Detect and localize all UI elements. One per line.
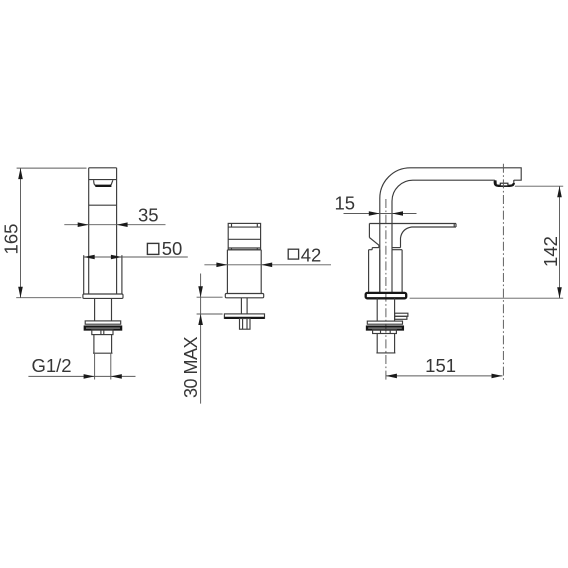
riser tube lines through body <box>380 250 392 293</box>
aerator at spout tip <box>495 180 514 186</box>
backnut <box>92 330 113 335</box>
label square 50 <box>147 238 182 259</box>
washer 1 <box>367 321 402 324</box>
shank <box>377 298 394 321</box>
extension lines for G1/2 <box>95 354 111 380</box>
shank <box>95 298 112 321</box>
handle skirt left <box>369 224 379 250</box>
mixer body <box>369 250 403 293</box>
dimension 165 <box>16 168 86 298</box>
spout centerline (dash-dot) <box>502 164 504 382</box>
dimension G1/2 <box>28 374 135 379</box>
svg-text:15: 15 <box>335 192 356 213</box>
spout inner profile <box>392 180 495 250</box>
svg-text:42: 42 <box>301 244 322 265</box>
svg-text:151: 151 <box>425 355 456 376</box>
svg-text:165: 165 <box>1 224 22 255</box>
backnut <box>373 330 397 334</box>
body divider line <box>89 204 117 206</box>
handle recess detail <box>94 180 113 186</box>
tap column body <box>89 168 117 294</box>
svg-text:30 MAX: 30 MAX <box>181 336 201 398</box>
wider square body (50mm section) <box>84 255 122 294</box>
washer 2 (bold) <box>85 327 121 330</box>
base plate (side) <box>225 294 263 298</box>
dimension 30 MAX <box>197 274 223 404</box>
riser centerline (dash-dot) <box>385 199 387 381</box>
neck step right <box>392 247 401 249</box>
label square 42 <box>288 244 321 265</box>
base plate <box>83 294 123 298</box>
svg-text:G1/2: G1/2 <box>31 355 71 376</box>
spout outer profile <box>380 168 521 293</box>
svg-text:35: 35 <box>138 205 159 226</box>
dimension 151 <box>386 374 503 379</box>
dimension square-50 <box>84 255 188 260</box>
dimension 15 <box>344 211 417 216</box>
svg-text:50: 50 <box>162 238 183 259</box>
svg-text:142: 142 <box>540 236 561 267</box>
dimension 35 <box>64 222 165 227</box>
threaded tail G1/2 <box>93 335 113 354</box>
dimension square-42 <box>204 263 331 268</box>
washer (bold bottom) <box>224 314 264 318</box>
stem <box>241 298 247 314</box>
base plate (bold) <box>366 293 407 298</box>
body (side) <box>227 250 261 294</box>
handle divider line <box>89 179 117 181</box>
side tabs <box>395 313 408 319</box>
handle (side) <box>228 223 260 249</box>
threaded tail <box>376 334 395 353</box>
lever blade <box>369 224 456 248</box>
dimension 142 <box>410 186 564 298</box>
small nut <box>240 319 251 330</box>
washer 2 (bold) <box>367 327 403 330</box>
washer 1 <box>85 321 121 324</box>
